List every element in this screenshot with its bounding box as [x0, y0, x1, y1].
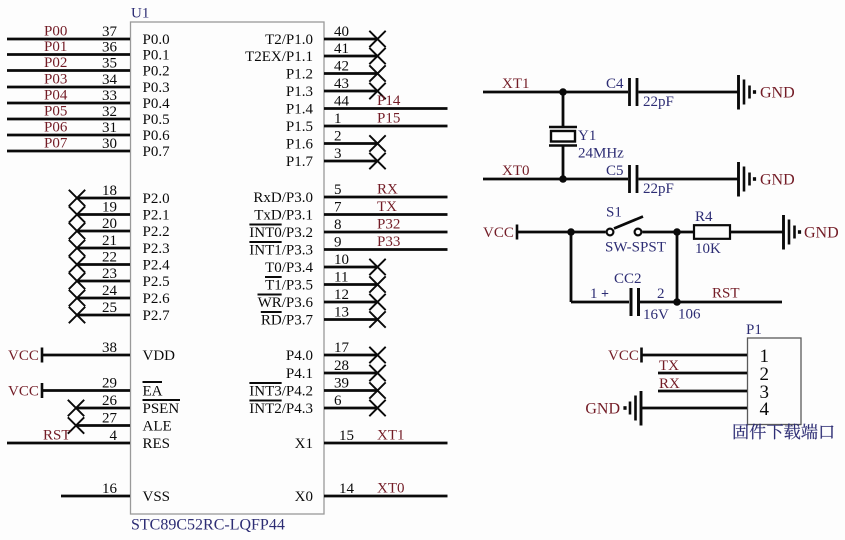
svg-text:37: 37	[102, 24, 118, 40]
no-connect X pin 19	[69, 206, 85, 222]
svg-text:P2.3: P2.3	[143, 241, 170, 257]
wire pin 4 RES to net RST	[7, 442, 130, 445]
svg-text:T1/P3.5: T1/P3.5	[265, 278, 313, 294]
wire pin 42 (P1.2) stub	[324, 72, 378, 75]
wire R4 to GND	[730, 231, 783, 234]
svg-text:30: 30	[102, 136, 117, 152]
svg-text:INT2/P4.3: INT2/P4.3	[249, 401, 313, 417]
svg-text:XT0: XT0	[377, 481, 405, 497]
svg-text:P07: P07	[44, 136, 68, 152]
svg-text:9: 9	[334, 235, 342, 251]
svg-text:RST: RST	[43, 428, 71, 444]
svg-text:X0: X0	[295, 489, 313, 505]
svg-text:13: 13	[334, 305, 349, 321]
svg-text:18: 18	[102, 183, 117, 199]
no-connect X pin 22	[69, 256, 85, 272]
IC U1 body (STC89C52RC-LQFP44)	[131, 22, 325, 514]
wire VCC to switch S1	[517, 231, 606, 234]
svg-text:XT0: XT0	[502, 163, 530, 179]
switch S1 lever	[614, 217, 643, 229]
svg-text:33: 33	[102, 88, 117, 104]
ground symbol GND (R4)	[782, 215, 785, 250]
no-connect X pin 3	[369, 153, 385, 169]
svg-text:1: 1	[590, 286, 598, 302]
wire C5 to GND	[639, 178, 739, 181]
wire pin 32 (P0.5) to net P05	[7, 118, 130, 121]
svg-text:R4: R4	[695, 209, 713, 225]
svg-text:P15: P15	[377, 111, 400, 127]
svg-text:PSEN: PSEN	[143, 401, 180, 417]
svg-text:24: 24	[102, 283, 118, 299]
svg-text:P32: P32	[377, 217, 400, 233]
svg-text:SW-SPST: SW-SPST	[605, 240, 666, 256]
svg-text:P0.4: P0.4	[143, 96, 171, 112]
junction node R4/RST branch	[673, 228, 681, 236]
svg-text:14: 14	[339, 481, 355, 497]
svg-text:WR/P3.6: WR/P3.6	[258, 295, 314, 311]
svg-text:T2EX/P1.1: T2EX/P1.1	[245, 49, 313, 65]
svg-text:35: 35	[102, 56, 117, 72]
svg-text:P14: P14	[377, 93, 401, 109]
wire pin 6 (INT2/P4.3) stub	[324, 407, 378, 410]
no-connect X pin 43	[369, 83, 385, 99]
svg-text:TX: TX	[377, 199, 397, 215]
wire crystal top	[562, 92, 565, 127]
junction node XT0/crystal	[559, 175, 567, 183]
svg-text:P2.1: P2.1	[143, 208, 170, 224]
svg-text:22pF: 22pF	[643, 181, 674, 197]
wire pin 11 (T1/P3.5) stub	[324, 283, 378, 286]
svg-text:P0.1: P0.1	[143, 48, 170, 64]
svg-text:22pF: 22pF	[643, 94, 674, 110]
wire pin 21 (P2.3) stub	[77, 247, 130, 250]
svg-text:CC2: CC2	[614, 271, 642, 287]
wire pin 29 EA to VCC	[42, 389, 130, 392]
no-connect X pin 24	[69, 290, 85, 306]
svg-text:C5: C5	[606, 163, 624, 179]
svg-text:X1: X1	[295, 436, 313, 452]
no-connect X pin 2	[369, 135, 385, 151]
no-connect X pin 42	[369, 65, 385, 81]
svg-text:17: 17	[334, 340, 350, 356]
wire pin 8 (INT0/P3.2) to net P32	[324, 231, 448, 234]
svg-text:2: 2	[334, 129, 342, 145]
no-connect X pin 12	[369, 294, 385, 310]
junction node VCC branch	[567, 228, 575, 236]
no-connect X pin 23	[69, 273, 85, 289]
no-connect X pin 39	[369, 382, 385, 398]
svg-text:43: 43	[334, 76, 349, 92]
wire pin 38 VDD to VCC	[42, 354, 130, 357]
svg-text:P33: P33	[377, 234, 400, 250]
wire GND to P1 pin4	[641, 407, 747, 410]
wire crystal bottom	[562, 146, 565, 180]
svg-text:TxD/P3.1: TxD/P3.1	[254, 208, 313, 224]
wire pin 25 (P2.7) stub	[77, 314, 130, 317]
no-connect X pin 17	[369, 347, 385, 363]
svg-text:P0.2: P0.2	[143, 64, 170, 80]
svg-text:P0.5: P0.5	[143, 112, 170, 128]
svg-text:RX: RX	[377, 182, 398, 198]
svg-text:38: 38	[102, 340, 117, 356]
svg-text:3: 3	[334, 146, 342, 162]
ground symbol GND (C5)	[737, 162, 740, 197]
wire VCC to P1 pin1	[642, 354, 748, 357]
no-connect X pin 40	[369, 31, 385, 47]
wire pin 28 (P4.1) stub	[324, 372, 378, 375]
svg-text:6: 6	[334, 393, 342, 409]
wire pin 40 (T2/P1.0) stub	[324, 38, 378, 41]
wire net XT1 horizontal	[483, 91, 628, 94]
svg-text:VSS: VSS	[143, 489, 171, 505]
svg-text:C4: C4	[606, 76, 624, 92]
wire pin 14 (X0) to net XT0	[324, 495, 448, 498]
wire VCC branch down to CC2	[570, 232, 573, 302]
capacitor C5 plates	[628, 165, 631, 193]
svg-text:+: +	[601, 287, 609, 302]
svg-text:44: 44	[334, 94, 350, 110]
wire CC2 to RST junction	[640, 301, 677, 304]
wire pin 27 ALE stub	[76, 424, 130, 427]
svg-text:7: 7	[334, 200, 342, 216]
svg-text:P2.6: P2.6	[143, 291, 171, 307]
svg-text:P4.0: P4.0	[286, 348, 313, 364]
svg-text:20: 20	[102, 216, 117, 232]
svg-text:25: 25	[102, 300, 117, 316]
svg-text:U1: U1	[131, 6, 149, 22]
svg-text:P0.6: P0.6	[143, 128, 171, 144]
svg-text:26: 26	[102, 393, 118, 409]
svg-text:ALE: ALE	[143, 419, 172, 435]
svg-text:VCC: VCC	[608, 348, 639, 364]
wire pin 30 (P0.7) to net P07	[7, 150, 130, 153]
svg-text:P1.3: P1.3	[286, 84, 313, 100]
no-connect X pin 20	[69, 223, 85, 239]
svg-text:Y1: Y1	[578, 128, 596, 144]
svg-text:VCC: VCC	[8, 384, 39, 400]
wire pin 1 (P1.5) to net P15	[324, 125, 448, 128]
connector P1 body	[748, 338, 802, 425]
junction node RST	[673, 298, 681, 306]
wire pin 20 (P2.2) stub	[77, 230, 130, 233]
power symbol VCC (EA pin)	[41, 383, 44, 398]
svg-text:31: 31	[102, 120, 117, 136]
svg-text:P05: P05	[44, 104, 67, 120]
no-connect X pin 21	[69, 240, 85, 256]
svg-text:8: 8	[334, 217, 342, 233]
capacitor CC2 plates	[630, 288, 633, 316]
svg-text:P1: P1	[746, 322, 762, 338]
wire pin 2 (P1.6) stub	[324, 142, 378, 145]
ground symbol GND (P1)	[640, 391, 643, 426]
no-connect X pin 41	[369, 48, 385, 64]
svg-text:P1.7: P1.7	[286, 154, 314, 170]
svg-text:STC89C52RC-LQFP44: STC89C52RC-LQFP44	[131, 517, 285, 534]
svg-text:VDD: VDD	[143, 348, 176, 364]
wire R4 junction down to RST	[676, 232, 679, 302]
no-connect X pin 6	[369, 400, 385, 416]
svg-text:19: 19	[102, 200, 117, 216]
wire pin 35 (P0.2) to net P02	[7, 69, 130, 72]
svg-text:INT1/P3.3: INT1/P3.3	[249, 243, 313, 259]
svg-text:RxD/P3.0: RxD/P3.0	[253, 190, 313, 206]
svg-text:P1.6: P1.6	[286, 137, 314, 153]
power symbol VCC (VDD pin)	[41, 348, 44, 363]
svg-text:GND: GND	[804, 225, 839, 242]
svg-text:P00: P00	[44, 24, 67, 40]
text label 固件下载端口 (firmware download port)	[734, 424, 748, 439]
wire pin 15 (X1) to net XT1	[324, 442, 448, 445]
wire pin 18 (P2.0) stub	[77, 197, 130, 200]
power symbol VCC tick (reset)	[516, 225, 519, 240]
svg-text:T2/P1.0: T2/P1.0	[265, 32, 313, 48]
svg-text:28: 28	[334, 358, 349, 374]
wire pin 17 (P4.0) stub	[324, 354, 378, 357]
svg-text:P06: P06	[44, 120, 68, 136]
switch S1 contacts	[607, 229, 614, 236]
svg-text:27: 27	[102, 411, 118, 427]
svg-text:2: 2	[657, 286, 665, 302]
wire pin 43 (P1.3) stub	[324, 90, 378, 93]
svg-text:GND: GND	[760, 172, 795, 189]
svg-text:RST: RST	[712, 286, 740, 302]
svg-text:P0.0: P0.0	[143, 32, 170, 48]
crystal Y1 symbol	[549, 126, 577, 129]
svg-text:15: 15	[339, 428, 354, 444]
svg-text:P2.0: P2.0	[143, 191, 170, 207]
svg-text:4: 4	[760, 399, 770, 420]
wire pin 7 (TxD/P3.1) to net TX	[324, 213, 448, 216]
svg-text:16V: 16V	[643, 307, 669, 323]
wire pin 36 (P0.1) to net P01	[7, 53, 130, 56]
wire C4 to GND	[639, 91, 739, 94]
wire net TX to P1 pin2	[658, 372, 747, 375]
svg-text:P4.1: P4.1	[286, 366, 313, 382]
svg-text:XT1: XT1	[502, 76, 530, 92]
svg-text:42: 42	[334, 59, 349, 75]
svg-text:22: 22	[102, 250, 117, 266]
svg-text:24MHz: 24MHz	[578, 146, 624, 162]
svg-text:P03: P03	[44, 72, 67, 88]
svg-text:INT3/P4.2: INT3/P4.2	[249, 384, 313, 400]
wire pin 24 (P2.6) stub	[77, 297, 130, 300]
power symbol VCC tick (P1)	[640, 348, 643, 363]
resistor R4 body	[694, 225, 730, 239]
no-connect X pin 10	[369, 259, 385, 275]
svg-text:36: 36	[102, 40, 118, 56]
no-connect X pin 11	[369, 276, 385, 292]
svg-text:INT0/P3.2: INT0/P3.2	[249, 225, 313, 241]
svg-text:P2.7: P2.7	[143, 308, 171, 324]
wire pin 39 (INT3/P4.2) stub	[324, 389, 378, 392]
svg-text:VCC: VCC	[8, 348, 39, 364]
svg-text:21: 21	[102, 233, 117, 249]
no-connect X pin 27	[68, 417, 84, 433]
no-connect X pin 28	[369, 365, 385, 381]
svg-text:34: 34	[102, 72, 118, 88]
no-connect X pin 13	[369, 311, 385, 327]
no-connect X pin 25	[69, 307, 85, 323]
svg-text:P1.2: P1.2	[286, 67, 313, 83]
wire to CC2 positive plate	[571, 301, 629, 304]
svg-text:P0.3: P0.3	[143, 80, 170, 96]
svg-text:32: 32	[102, 104, 117, 120]
wire pin 13 (RD/P3.7) stub	[324, 318, 378, 321]
svg-text:40: 40	[334, 24, 349, 40]
svg-text:GND: GND	[585, 401, 620, 418]
svg-text:EA: EA	[143, 384, 163, 400]
svg-text:16: 16	[102, 481, 118, 497]
wire pin 41 (T2EX/P1.1) stub	[324, 55, 378, 58]
svg-text:GND: GND	[760, 85, 795, 102]
wire pin 31 (P0.6) to net P06	[7, 134, 130, 137]
svg-text:10: 10	[334, 252, 349, 268]
svg-text:VCC: VCC	[483, 225, 514, 241]
svg-text:RES: RES	[143, 436, 171, 452]
svg-text:P1.4: P1.4	[286, 102, 314, 118]
junction node XT1/crystal	[559, 88, 567, 96]
svg-text:P02: P02	[44, 55, 67, 71]
svg-text:1: 1	[334, 111, 342, 127]
wire pin 3 (P1.7) stub	[324, 160, 378, 163]
svg-text:P04: P04	[44, 88, 68, 104]
wire switch to R4	[643, 231, 695, 234]
wire pin 33 (P0.4) to net P04	[7, 102, 130, 105]
svg-text:4: 4	[110, 428, 118, 444]
no-connect X pin 18	[69, 190, 85, 206]
wire pin 12 (WR/P3.6) stub	[324, 301, 378, 304]
wire pin 19 (P2.1) stub	[77, 213, 130, 216]
svg-text:RD/P3.7: RD/P3.7	[261, 313, 314, 329]
wire net RX to P1 pin3	[658, 390, 747, 393]
wire net RST	[677, 301, 782, 304]
svg-text:P1.5: P1.5	[286, 119, 313, 135]
wire pin 44 (P1.4) to net P14	[324, 107, 448, 110]
svg-text:5: 5	[334, 182, 342, 198]
wire pin 37 (P0.0) to net P00	[7, 38, 130, 41]
wire pin 22 (P2.4) stub	[77, 263, 130, 266]
svg-text:T0/P3.4: T0/P3.4	[265, 260, 313, 276]
svg-text:P2.2: P2.2	[143, 224, 170, 240]
capacitor C4 plates	[628, 78, 631, 106]
wire pin 26 PSEN stub	[76, 407, 130, 410]
svg-text:XT1: XT1	[377, 428, 405, 444]
svg-text:106: 106	[678, 307, 701, 323]
svg-text:P2.4: P2.4	[143, 258, 171, 274]
svg-text:23: 23	[102, 266, 117, 282]
svg-text:29: 29	[102, 376, 117, 392]
svg-text:P01: P01	[44, 39, 67, 55]
no-connect X pin 26	[68, 400, 84, 416]
svg-text:10K: 10K	[695, 241, 721, 257]
svg-text:11: 11	[334, 270, 348, 286]
svg-text:12: 12	[334, 287, 349, 303]
wire pin 10 (T0/P3.4) stub	[324, 266, 378, 269]
wire net XT0 horizontal	[483, 178, 628, 181]
svg-text:P0.7: P0.7	[143, 144, 171, 160]
wire pin 16 VSS	[61, 495, 130, 498]
wire pin 34 (P0.3) to net P03	[7, 86, 130, 89]
ground symbol GND (C4)	[737, 75, 740, 110]
wire pin 23 (P2.5) stub	[77, 280, 130, 283]
svg-text:41: 41	[334, 41, 349, 57]
svg-text:39: 39	[334, 376, 349, 392]
svg-text:S1: S1	[606, 205, 622, 221]
wire pin 9 (INT1/P3.3) to net P33	[324, 248, 448, 251]
wire pin 5 (RxD/P3.0) to net RX	[324, 196, 448, 199]
svg-text:P2.5: P2.5	[143, 274, 170, 290]
